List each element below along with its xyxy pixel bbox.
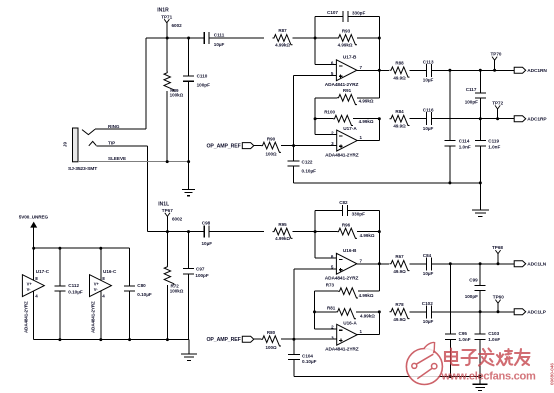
- svg-text:R88: R88: [395, 60, 404, 65]
- label R67: [395, 254, 404, 259]
- svg-text:ADC1RN: ADC1RN: [527, 68, 547, 74]
- op-amp U16-A minus: [339, 329, 343, 331]
- label C114 value: [459, 145, 471, 150]
- label C104 value: [302, 359, 317, 364]
- label C111 value: [214, 42, 225, 47]
- label C119 value: [488, 145, 500, 150]
- label C82 value: [352, 211, 365, 216]
- label OP_AMP_REF lower: [207, 337, 241, 343]
- junction R81 left: [313, 310, 316, 313]
- label R73 value: [359, 293, 374, 298]
- wire R90 to node: [281, 145, 294, 147]
- U17-C pin 8: [35, 276, 38, 281]
- op-amp U16-B: [336, 253, 357, 274]
- watermark side text: [550, 363, 554, 385]
- svg-text:0.10µF: 0.10µF: [68, 289, 83, 294]
- ground upper right: [472, 183, 489, 216]
- svg-text:1.0nF: 1.0nF: [459, 337, 471, 342]
- label R87: [278, 28, 287, 33]
- resistor R80: [261, 336, 281, 346]
- U17-C pin 4: [35, 294, 38, 299]
- svg-text:330pF: 330pF: [352, 211, 365, 216]
- svg-text:IN1R: IN1R: [157, 8, 169, 14]
- svg-text:R84: R84: [395, 109, 404, 114]
- svg-text:1.0nF: 1.0nF: [488, 145, 500, 150]
- label R84 value: [393, 124, 406, 129]
- svg-text:V+: V+: [27, 281, 33, 286]
- capacitor C119 shunt: [475, 119, 486, 183]
- op-amp U17-B pin 5: [331, 71, 334, 76]
- label C107: [327, 10, 338, 15]
- svg-text:4.99kΩ: 4.99kΩ: [275, 236, 290, 241]
- svg-text:10µF: 10µF: [423, 319, 434, 324]
- watermark url text: [441, 371, 536, 383]
- svg-text:ADA4841-2YRZ: ADA4841-2YRZ: [24, 301, 29, 333]
- svg-text:100Ω: 100Ω: [265, 151, 277, 156]
- svg-text:C84: C84: [423, 253, 432, 258]
- op-amp U17-A pin 1: [360, 135, 363, 140]
- wire U17-A pin3 to ref node: [294, 145, 337, 147]
- svg-text:R90: R90: [267, 136, 276, 141]
- svg-text:10µF: 10µF: [202, 241, 213, 246]
- watermark logo nodes: [412, 354, 437, 379]
- svg-text:TP60: TP60: [493, 295, 504, 300]
- wire U16-A pin3 to ref node: [294, 338, 337, 340]
- label R100: [324, 109, 335, 114]
- power rail bottom: [34, 339, 189, 341]
- capacitor C117 interline: [475, 70, 486, 118]
- junction brail/U16C: [99, 338, 102, 341]
- node D junction: [378, 37, 381, 40]
- capacitor C112: [54, 248, 65, 339]
- op-amp U16-B pin 7: [360, 258, 363, 263]
- wire TIP down to IN1L: [96, 146, 147, 232]
- wire U17-B output: [357, 69, 389, 71]
- op-amp U17-B plus: [339, 74, 343, 78]
- label C84: [423, 253, 432, 258]
- svg-text:R96: R96: [342, 223, 351, 228]
- op-amp U17-B pin 6: [331, 60, 334, 65]
- svg-text:49.9Ω: 49.9Ω: [393, 75, 406, 80]
- svg-text:100Ω: 100Ω: [265, 345, 277, 350]
- label R91: [343, 88, 352, 93]
- label U17-A: [343, 126, 357, 131]
- label C80 value: [137, 292, 152, 297]
- label R73: [326, 283, 335, 288]
- capacitor C116 series: [426, 112, 431, 125]
- label C119: [488, 139, 499, 144]
- label C110 value: [197, 82, 210, 87]
- label C103 value: [488, 337, 500, 342]
- svg-text:U16-C: U16-C: [103, 269, 117, 274]
- svg-text:SLEEVE: SLEEVE: [108, 156, 126, 161]
- label C117: [466, 87, 477, 92]
- wire R73 to left vert: [315, 291, 339, 329]
- label IN1L: [158, 201, 169, 207]
- label U17-B part: [325, 82, 359, 88]
- op-amp U17-A pin 2: [331, 130, 334, 135]
- wire node B to pin6: [315, 38, 336, 65]
- svg-text:R100: R100: [324, 109, 335, 114]
- svg-text:4.99kΩ: 4.99kΩ: [360, 233, 375, 238]
- resistor R67: [390, 260, 410, 270]
- label R72 value: [170, 288, 184, 293]
- label C102: [422, 301, 433, 306]
- junction R72 top: [166, 230, 169, 233]
- junction rail/gnd: [479, 181, 482, 184]
- label R93 value: [338, 42, 353, 47]
- label R81: [327, 305, 336, 310]
- svg-text:4.99kΩ: 4.99kΩ: [338, 42, 353, 47]
- wire upper gnd rail: [294, 182, 481, 184]
- op-amp U16-A pin 2: [331, 325, 334, 330]
- label C97 value: [195, 273, 208, 278]
- wire C116 to tag: [432, 118, 515, 120]
- svg-text:100pF: 100pF: [465, 294, 478, 299]
- svg-text:U17-A: U17-A: [343, 126, 357, 131]
- svg-text:C80: C80: [137, 283, 146, 288]
- junction sleeve/C110: [187, 160, 190, 163]
- junction R89 top: [166, 37, 169, 40]
- svg-text:C111: C111: [214, 33, 225, 38]
- label C113 value: [423, 78, 434, 83]
- svg-text:49.9Ω: 49.9Ω: [393, 124, 406, 129]
- label OP_AMP_REF upper: [207, 143, 241, 149]
- svg-text:10µF: 10µF: [214, 42, 225, 47]
- svg-text:R95: R95: [278, 222, 287, 227]
- svg-text:1.0nF: 1.0nF: [459, 145, 471, 150]
- svg-text:U16-A: U16-A: [343, 320, 357, 325]
- wire R67 to C84: [410, 263, 427, 265]
- svg-text:4.99kΩ: 4.99kΩ: [359, 293, 374, 298]
- label R90: [267, 136, 276, 141]
- junction C95 top: [449, 262, 452, 265]
- svg-text:49.9Ω: 49.9Ω: [393, 269, 406, 274]
- wire lower gnd rail: [294, 376, 480, 378]
- resistor R95: [273, 228, 293, 238]
- wire node B2 to R96: [315, 231, 337, 233]
- label C95 value: [459, 337, 471, 342]
- svg-text:OP_AMP_REF: OP_AMP_REF: [207, 143, 241, 149]
- junction brail/C112: [58, 338, 61, 341]
- resistor R90: [261, 142, 281, 152]
- wire R84 to C116: [410, 118, 427, 120]
- U16-C pin 8: [102, 276, 105, 281]
- wire feedback loop right: [348, 17, 379, 39]
- svg-text:V+: V+: [94, 281, 100, 286]
- svg-text:C103: C103: [488, 331, 499, 336]
- svg-text:C112: C112: [68, 283, 79, 288]
- svg-text:TP71: TP71: [161, 14, 172, 19]
- resistor R78: [390, 308, 410, 318]
- capacitor C122: [288, 146, 300, 183]
- label U16-B part: [325, 275, 359, 281]
- capacitor C99 interline: [475, 264, 486, 312]
- svg-text:ADA4841-2YRZ: ADA4841-2YRZ: [325, 153, 359, 159]
- label C98 value: [202, 241, 213, 246]
- junction TP70: [493, 69, 496, 72]
- wire pin2 lower: [315, 328, 337, 330]
- label TIP: [108, 141, 115, 146]
- svg-text:0.10µF: 0.10µF: [302, 169, 317, 174]
- label C113: [423, 59, 434, 64]
- junction TP72: [496, 117, 499, 120]
- svg-text:U16-B: U16-B: [343, 248, 357, 253]
- svg-text:ADA4841-2YRZ: ADA4841-2YRZ: [91, 301, 96, 333]
- label R78: [395, 302, 404, 307]
- svg-text:C98: C98: [202, 220, 211, 225]
- svg-text:RING: RING: [108, 124, 120, 129]
- label R100 value: [359, 119, 374, 124]
- svg-text:R87: R87: [278, 28, 287, 33]
- svg-text:TP68: TP68: [492, 245, 503, 250]
- label 6002: [172, 23, 183, 28]
- label U16-A: [343, 320, 357, 325]
- label U17-C: [36, 269, 50, 274]
- junction brail/C80: [128, 338, 131, 341]
- svg-text:R78: R78: [395, 302, 404, 307]
- label C110: [197, 73, 208, 78]
- label C117 value: [465, 99, 478, 104]
- svg-text:C95: C95: [459, 331, 468, 336]
- label C116: [423, 108, 434, 113]
- label C114: [459, 139, 470, 144]
- wire pin2: [315, 134, 337, 136]
- svg-text:TP72: TP72: [492, 101, 503, 106]
- svg-text:R80: R80: [267, 330, 276, 335]
- label R95 value: [275, 236, 290, 241]
- label 6002 lower: [172, 217, 183, 222]
- wire output node down to R91: [357, 70, 379, 98]
- junction U17-B output: [378, 69, 381, 72]
- svg-text:10µF: 10µF: [423, 78, 434, 83]
- capacitor C110 shunt: [183, 38, 194, 162]
- label C107 value: [352, 11, 365, 16]
- label ADC1LP: [527, 310, 546, 316]
- wire IN1R main: [146, 37, 204, 39]
- svg-text:C107: C107: [327, 10, 338, 15]
- label R91 value: [359, 98, 374, 103]
- svg-text:100pF: 100pF: [465, 99, 478, 104]
- svg-text:ADA4841-2YRZ: ADA4841-2YRZ: [325, 82, 359, 88]
- svg-text:J9: J9: [63, 142, 68, 148]
- wire R95 to node B2: [293, 231, 316, 233]
- svg-text:C113: C113: [423, 59, 434, 64]
- wire feedback loop left: [315, 17, 343, 39]
- label ADC1LN: [527, 262, 546, 268]
- svg-text:100pF: 100pF: [195, 273, 208, 278]
- svg-text:www.elecfans.com: www.elecfans.com: [441, 371, 536, 383]
- junction C110 top: [187, 37, 190, 40]
- op-amp U17-B pin 7: [360, 65, 363, 70]
- wire RING to IN1R node: [95, 38, 146, 129]
- label C112: [68, 283, 79, 288]
- svg-text:C82: C82: [339, 200, 348, 205]
- wire R81 left: [315, 311, 337, 313]
- junction C117 top: [479, 69, 482, 72]
- label C98: [202, 220, 211, 225]
- svg-text:U17-B: U17-B: [343, 54, 357, 59]
- svg-text:V-: V-: [94, 287, 99, 292]
- junction C119 top: [479, 117, 482, 120]
- label R81 value: [360, 314, 375, 319]
- jack SLEEVE wire: [78, 161, 189, 163]
- watermark logo circle: [406, 342, 442, 384]
- svg-text:R93: R93: [342, 28, 351, 33]
- svg-text:V-: V-: [27, 287, 32, 292]
- label U17-B: [343, 54, 357, 59]
- test point TP67: [162, 208, 173, 232]
- svg-text:100pF: 100pF: [197, 82, 210, 87]
- wire R81 to node: [356, 311, 379, 313]
- junction U16-B output: [378, 262, 381, 265]
- wire U17-B pin5 to ref: [294, 75, 337, 145]
- label C99 value: [465, 294, 478, 299]
- ground lower right: [473, 377, 488, 391]
- ground at sleeve: [182, 162, 195, 196]
- capacitor C111 series: [204, 32, 209, 44]
- svg-text:0.10µF: 0.10µF: [302, 359, 317, 364]
- power arrow: [30, 222, 37, 249]
- svg-text:1.0nF: 1.0nF: [488, 337, 500, 342]
- label R80: [267, 330, 276, 335]
- label C104: [302, 353, 313, 358]
- junction rail2/gnd: [479, 375, 482, 378]
- capacitor C95 shunt: [445, 264, 456, 377]
- svg-text:R81: R81: [327, 305, 336, 310]
- capacitor C104: [288, 339, 300, 376]
- U17-C V+: [27, 281, 33, 286]
- svg-text:C117: C117: [466, 87, 477, 92]
- label ADC1RP: [527, 117, 547, 123]
- jack TIP contact: [89, 141, 97, 145]
- svg-text:330pF: 330pF: [352, 11, 365, 16]
- label R96 value: [360, 233, 375, 238]
- svg-text:09680-046: 09680-046: [550, 363, 554, 385]
- junction R100 right: [378, 117, 381, 120]
- svg-text:TIP: TIP: [108, 141, 115, 146]
- wire node B2 to pin6: [315, 232, 336, 259]
- label U17-A part: [325, 153, 359, 159]
- wire R91 to left vert: [315, 98, 337, 135]
- resistor R87: [273, 35, 293, 45]
- label C97: [196, 266, 205, 271]
- wire U17-C stem: [33, 248, 35, 339]
- wire feedback2 loop right: [348, 210, 380, 231]
- svg-text:6002: 6002: [172, 217, 183, 222]
- capacitor C84 series: [426, 257, 431, 270]
- wire R96 to node D2: [357, 231, 379, 233]
- op-amp U16-A pin 1: [360, 329, 363, 334]
- svg-text:ADC1LN: ADC1LN: [527, 262, 546, 268]
- wire U17-A output to node: [357, 119, 379, 141]
- junction brail/R72: [166, 338, 169, 341]
- op-amp U17-A plus: [339, 144, 343, 148]
- power rail top: [34, 247, 130, 249]
- connector J9 label: [63, 142, 68, 148]
- svg-text:4.99kΩ: 4.99kΩ: [359, 119, 374, 124]
- svg-text:100kΩ: 100kΩ: [170, 93, 184, 98]
- capacitor C114 shunt: [444, 70, 455, 183]
- junction C99 top: [479, 262, 482, 265]
- svg-text:ADC1RP: ADC1RP: [527, 117, 547, 123]
- wire R88 to C113: [410, 69, 427, 71]
- wire U16-B pin5 to ref: [294, 269, 337, 339]
- node D2 junction: [378, 230, 381, 233]
- svg-text:0.10µF: 0.10µF: [137, 292, 152, 297]
- svg-text:4.99kΩ: 4.99kΩ: [360, 314, 375, 319]
- svg-text:6002: 6002: [172, 23, 183, 28]
- connector J9 body: [73, 128, 79, 162]
- test point TP60: [493, 295, 504, 312]
- svg-text:R91: R91: [343, 88, 352, 93]
- wire U16-C stem: [100, 248, 102, 339]
- label C95: [459, 331, 468, 336]
- junction rail/C112: [58, 247, 61, 250]
- wire R100 to node: [353, 118, 379, 120]
- svg-text:10µF: 10µF: [423, 126, 434, 131]
- junction C103 top: [479, 310, 482, 313]
- junction sleeve/R89: [166, 160, 169, 163]
- op-amp U17-B: [336, 60, 357, 81]
- wire R78 to C102: [410, 311, 427, 313]
- label R89: [170, 88, 179, 93]
- svg-text:U17-C: U17-C: [36, 269, 50, 274]
- op-amp U16-B pin 6: [331, 254, 334, 259]
- wire U16-A output to node: [357, 312, 379, 335]
- label R93: [342, 28, 351, 33]
- svg-text:C110: C110: [197, 73, 208, 78]
- svg-text:ADA4841-2YRZ: ADA4841-2YRZ: [325, 275, 359, 281]
- junction R81 right: [378, 310, 381, 313]
- test point TP68: [492, 245, 503, 264]
- tag ADC1RN: [514, 67, 526, 73]
- wire R87 to node B: [293, 37, 316, 39]
- test point TP71: [161, 14, 172, 38]
- label R67 value: [393, 269, 406, 274]
- junction rail/stem: [32, 247, 35, 250]
- label R95: [278, 222, 287, 227]
- svg-text:C114: C114: [459, 139, 470, 144]
- label U17-C part: [24, 301, 29, 333]
- label SLEEVE: [108, 156, 126, 161]
- label R88: [395, 60, 404, 65]
- label U16-A part: [325, 347, 359, 353]
- capacitor C103 shunt: [475, 312, 486, 377]
- resistor R88: [390, 67, 410, 77]
- label C84 value: [423, 271, 434, 276]
- label R72: [171, 284, 180, 289]
- svg-text:ADA4841-2YRZ: ADA4841-2YRZ: [325, 347, 359, 353]
- label ADC1RN: [527, 68, 547, 74]
- op-amp U16-A: [337, 324, 358, 345]
- wire C113 to tag: [432, 69, 515, 71]
- svg-text:IN1L: IN1L: [158, 201, 169, 207]
- label R88 value: [393, 75, 406, 80]
- wire output2 node down to R73: [358, 264, 379, 291]
- label U16-B: [343, 248, 357, 253]
- wire tag to R90: [254, 145, 261, 147]
- wire U16-B output: [357, 263, 389, 265]
- svg-text:TP70: TP70: [491, 52, 502, 57]
- label R80 value: [265, 345, 277, 350]
- wire tag to R80: [254, 338, 261, 340]
- resistor R96 feedback: [337, 228, 357, 238]
- wire C111 to R87: [209, 37, 264, 39]
- label U16-C: [103, 269, 117, 274]
- junction TP60: [497, 310, 500, 313]
- svg-text:10µF: 10µF: [423, 271, 434, 276]
